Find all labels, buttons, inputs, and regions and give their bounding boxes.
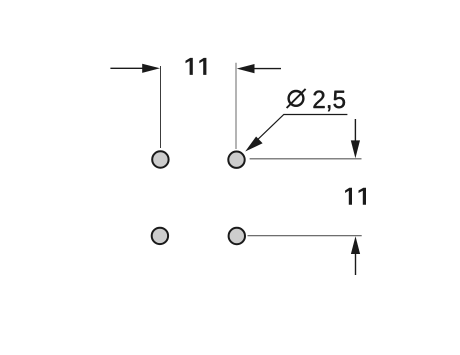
- left arrow of horizontal dimension 11: [110, 64, 160, 73]
- leader line from Ø 2,5 label to top-right hole: [245, 115, 347, 152]
- hole top-left: [152, 151, 168, 167]
- dimension text 11 (horizontal hole spacing): [186, 58, 207, 75]
- extension line left of horizontal dimension 11: [160, 66, 162, 148]
- right arrow of horizontal dimension 11: [237, 64, 281, 73]
- extension line from top-right hole (vertical dimension 11): [250, 158, 362, 160]
- extension line right of horizontal dimension 11: [235, 63, 237, 149]
- hole bottom-right: [229, 228, 245, 244]
- dimension text 11 (vertical hole spacing): [345, 188, 366, 205]
- bottom arrow of vertical dimension 11 (points up): [351, 236, 360, 275]
- hole top-right: [228, 152, 244, 168]
- hole diameter label Ø 2,5: [287, 89, 345, 111]
- top arrow of vertical dimension 11 (points down): [351, 119, 360, 158]
- hole bottom-left: [152, 228, 168, 244]
- extension line from bottom-right hole (vertical dimension 11): [248, 235, 362, 237]
